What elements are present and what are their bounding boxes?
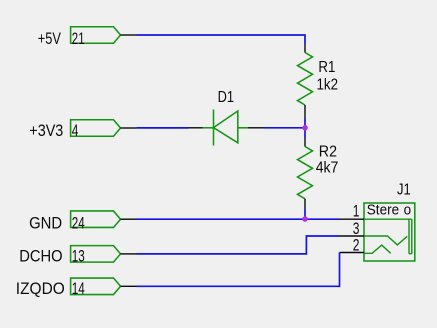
svg-text:3: 3 bbox=[353, 220, 360, 238]
terminal +3V3 bbox=[71, 120, 121, 137]
pin stub terminal +5V bbox=[121, 34, 137, 36]
jack tip contact (pin 2) bbox=[364, 245, 391, 253]
svg-text:IZQDO: IZQDO bbox=[16, 279, 65, 298]
pin 2 bbox=[340, 252, 365, 254]
terminal GND bbox=[71, 211, 121, 228]
svg-text:D1: D1 bbox=[218, 89, 234, 106]
wire R1 to node A bbox=[304, 119, 306, 138]
svg-text:13: 13 bbox=[72, 246, 85, 265]
svg-text:R1: R1 bbox=[318, 59, 335, 76]
svg-text:4k7: 4k7 bbox=[316, 160, 339, 177]
junction node A bbox=[302, 125, 308, 131]
jack sleeve contact (pin 1) bbox=[364, 219, 412, 254]
pin stub terminal IZQDO bbox=[121, 285, 137, 287]
svg-text:1k2: 1k2 bbox=[317, 76, 339, 93]
svg-text:R2: R2 bbox=[319, 144, 337, 161]
junction node B bbox=[302, 216, 308, 222]
svg-text:4: 4 bbox=[72, 121, 79, 140]
svg-text:14: 14 bbox=[72, 279, 85, 298]
svg-text:+5V: +5V bbox=[38, 29, 62, 48]
pin stub terminal +3V3 bbox=[121, 127, 137, 129]
wire +3V3 to D1 bbox=[137, 127, 189, 129]
svg-text:DCHO: DCHO bbox=[19, 246, 62, 265]
svg-text:1: 1 bbox=[353, 202, 360, 220]
svg-text:+3V3: +3V3 bbox=[29, 121, 63, 140]
pin stub terminal GND bbox=[121, 218, 137, 220]
svg-text:J1: J1 bbox=[397, 181, 411, 198]
svg-text:Stere: Stere bbox=[367, 201, 399, 218]
resistor R1 bbox=[298, 53, 313, 106]
terminal DCHO bbox=[71, 246, 121, 263]
resistor R2 bbox=[298, 147, 313, 199]
svg-text:GND: GND bbox=[29, 213, 62, 232]
wire +5V net bbox=[137, 35, 306, 45]
svg-text:24: 24 bbox=[72, 213, 85, 232]
diode D1 bbox=[203, 110, 249, 146]
pin 1 bbox=[340, 218, 365, 220]
pin stub terminal DCHO bbox=[121, 253, 137, 255]
svg-text:21: 21 bbox=[72, 29, 85, 48]
svg-text:o: o bbox=[404, 201, 412, 218]
pin 3 bbox=[340, 235, 365, 237]
wire D1 to node A bbox=[264, 127, 305, 129]
wire R2 to GND net bbox=[304, 209, 306, 219]
svg-text:2: 2 bbox=[353, 237, 360, 255]
wire IZQDO to J1 pin 2 bbox=[137, 253, 340, 287]
wire GND net bbox=[137, 218, 340, 220]
terminal IZQDO bbox=[71, 278, 121, 295]
terminal +5V bbox=[71, 27, 121, 44]
wire DCHO to J1 pin 3 bbox=[137, 236, 340, 254]
jack ring contact (pin 3) bbox=[364, 236, 407, 245]
